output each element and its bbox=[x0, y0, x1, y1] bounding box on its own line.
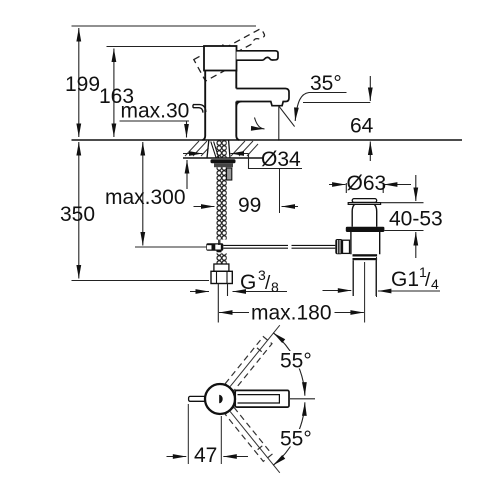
mounting deck top line bbox=[72, 139, 463, 141]
svg-text:350: 350 bbox=[60, 203, 95, 226]
dim 163 bbox=[113, 49, 115, 138]
pop-up knob (left of body) bbox=[193, 105, 206, 113]
dim Ø34 bbox=[183, 153, 203, 155]
svg-text:40-53: 40-53 bbox=[389, 208, 443, 231]
label G3/8 bbox=[190, 291, 209, 293]
deck hatching bbox=[185, 141, 258, 156]
spout bbox=[236, 89, 289, 106]
svg-text:max.300: max.300 bbox=[105, 186, 186, 209]
label G1 1/4 bbox=[378, 290, 440, 292]
svg-text:G1: G1 bbox=[391, 268, 419, 291]
thin diagonal centerlines bbox=[230, 325, 280, 386]
tap hole edges in deck bbox=[207, 141, 230, 159]
svg-text:max.30: max.30 bbox=[121, 100, 190, 123]
svg-text:G: G bbox=[240, 271, 256, 294]
dim max.300 bbox=[142, 142, 144, 246]
svg-text:99: 99 bbox=[238, 194, 261, 217]
rod clamp at hose bbox=[206, 243, 223, 251]
bare hose core above clamp bbox=[219, 240, 220, 245]
hose end collar bbox=[214, 264, 229, 271]
rod right section (double line) bbox=[223, 245, 335, 248]
body circle bbox=[205, 384, 235, 414]
dashed handle position lower bbox=[225, 407, 272, 461]
svg-text:4: 4 bbox=[431, 276, 439, 292]
threaded shank + flexible hose (braided) bbox=[217, 141, 227, 159]
dashed lever (raised position) bbox=[194, 24, 271, 81]
clamp collar bbox=[343, 240, 350, 253]
outlet pin bbox=[189, 396, 206, 401]
55-deg arcs bbox=[295, 359, 305, 396]
svg-text:55°: 55° bbox=[280, 428, 312, 451]
svg-text:47: 47 bbox=[194, 444, 217, 467]
G3/8 nut bbox=[211, 271, 232, 283]
dim 99 bbox=[194, 206, 215, 208]
aerator axis line bbox=[278, 106, 280, 141]
svg-text:35°: 35° bbox=[310, 72, 342, 95]
dashed handle position upper bbox=[225, 337, 272, 391]
dim 47 bbox=[187, 404, 189, 464]
dim 64 bbox=[303, 102, 370, 104]
spout/handle top view outer bbox=[235, 390, 289, 407]
nut stub lines bbox=[217, 284, 219, 323]
wire: 163 reference line (cap top level) bbox=[107, 46, 205, 48]
hose nipple bbox=[227, 168, 232, 180]
waste cap bbox=[352, 199, 377, 203]
svg-text:8: 8 bbox=[271, 279, 279, 295]
mounting deck bottom line bbox=[183, 157, 263, 159]
aerator 35-deg direction line bbox=[279, 106, 295, 126]
svg-text:199: 199 bbox=[65, 73, 100, 96]
350 bottom reference line bbox=[72, 280, 210, 282]
waste top rim bbox=[348, 203, 380, 205]
knurled knob bbox=[335, 239, 342, 254]
centerline right of spout bbox=[290, 398, 315, 400]
waste bell body bbox=[352, 204, 377, 226]
lever cap bbox=[204, 46, 237, 71]
faucet body bbox=[203, 71, 206, 141]
waste flange (dark) bbox=[346, 227, 385, 232]
wire: top reference line (199 level) bbox=[72, 25, 257, 27]
locknut under washer bbox=[214, 163, 233, 167]
svg-text:55°: 55° bbox=[280, 350, 312, 373]
tailpipe bbox=[353, 260, 376, 296]
svg-text:64: 64 bbox=[350, 115, 374, 138]
anchor cone lines in hole bbox=[211, 142, 219, 158]
waste centerline bbox=[364, 262, 366, 323]
svg-text:Ø34: Ø34 bbox=[261, 148, 301, 171]
waste body below flange bbox=[351, 232, 380, 254]
lever handle bbox=[237, 51, 279, 60]
svg-text:max.180: max.180 bbox=[251, 302, 332, 325]
svg-text:Ø63: Ø63 bbox=[347, 172, 387, 195]
aerator swivel arc w/ arrow bbox=[255, 118, 265, 129]
thread bands bbox=[353, 254, 378, 256]
dim 350 bbox=[78, 142, 80, 279]
inner outline bbox=[238, 395, 280, 403]
dim 40-53 bbox=[381, 202, 424, 204]
fillet: spout underside to body bbox=[236, 102, 241, 107]
cartridge half-dot bbox=[219, 395, 223, 404]
dim 199 bbox=[78, 28, 80, 137]
pop-up rod, horizontal left section bbox=[135, 246, 206, 248]
35-deg label leader bbox=[295, 93, 346, 122]
dim Ø63 bbox=[345, 183, 347, 193]
washer under deck bbox=[211, 159, 236, 163]
